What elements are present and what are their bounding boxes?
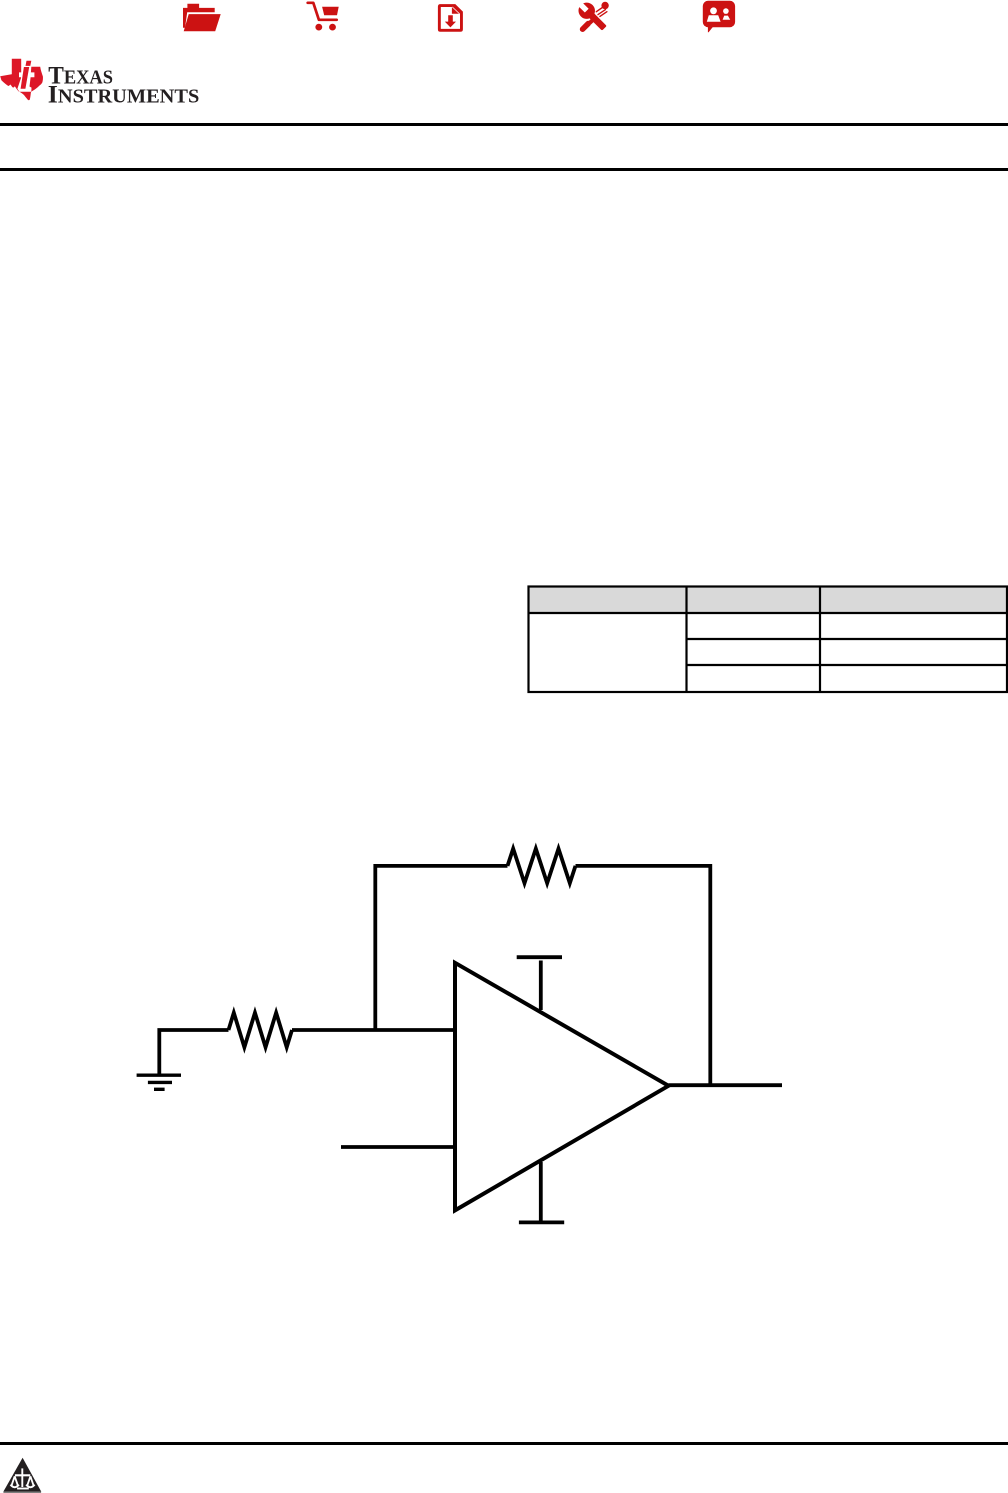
wire: feedback top left segment — [375, 866, 507, 1030]
wire: resistor to inverting input — [292, 1028, 455, 1032]
icon: crossed tools (design resources) — [579, 2, 609, 30]
device information table — [527, 585, 1008, 694]
wire: non-inverting input stub — [341, 1145, 455, 1149]
TI logo bug — [0, 57, 44, 103]
positive supply pin — [517, 957, 562, 1010]
resistor R1 (input) — [229, 1013, 293, 1048]
horizontal rule 1 — [0, 123, 1008, 126]
header icon row — [150, 0, 780, 40]
negative supply pin — [519, 1162, 564, 1222]
bottom rule — [0, 1442, 1008, 1445]
wire: output — [669, 1083, 783, 1087]
legal scales triangle icon — [0, 1455, 44, 1493]
resistor R2 (feedback) — [508, 849, 576, 884]
op-amp U1 triangle — [455, 963, 669, 1211]
icon: document with download arrow (datasheet pdf) — [438, 4, 463, 32]
TI logo wordmark — [0, 0, 260, 120]
wire: input from ground to resistor — [159, 1030, 228, 1074]
icon: chat bubble with people (support) — [703, 1, 735, 32]
wire: feedback top right segment — [576, 866, 711, 1085]
horizontal rule 2 — [0, 168, 1008, 171]
icon: open folder (technical documentation) — [183, 4, 221, 32]
icon: shopping cart (ordering) — [308, 3, 339, 31]
ground symbol — [137, 1075, 181, 1089]
